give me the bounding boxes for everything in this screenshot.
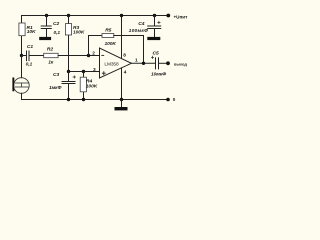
node R3 on rail [67, 14, 70, 17]
wire R2 to op-amp pin2 [58, 55, 99, 57]
svg-text:100мкФ: 100мкФ [129, 28, 149, 34]
svg-text:+Uпит: +Uпит [174, 15, 189, 20]
resistor R3 [65, 24, 71, 35]
op-amp plus input mark [102, 72, 105, 75]
wire node A row to op-amp pin3 [69, 71, 100, 73]
svg-text:C3: C3 [53, 72, 59, 78]
plus mark C3 [73, 76, 75, 78]
svg-text:10мкФ: 10мкФ [151, 71, 166, 77]
svg-text:C4: C4 [138, 21, 144, 27]
op-amp minus input mark [102, 54, 104, 56]
op-amp U1 triangle [100, 48, 132, 78]
svg-text:1к: 1к [48, 59, 54, 65]
ground under op-amp [115, 107, 128, 110]
svg-text:100K: 100K [73, 29, 85, 35]
svg-text:1мкФ: 1мкФ [49, 85, 62, 91]
wire bottom rail [22, 99, 169, 101]
wire C3 top [68, 72, 70, 82]
svg-text:0: 0 [173, 97, 176, 102]
node output junction [142, 62, 145, 65]
wire top rail [22, 15, 169, 17]
svg-text:LM358: LM358 [104, 62, 119, 68]
node C4 on rail [153, 14, 156, 17]
node J1 [20, 54, 23, 57]
svg-text:1: 1 [135, 58, 138, 64]
wire C5 to output terminal [159, 62, 168, 64]
svg-text:3: 3 [93, 67, 96, 73]
wire mic bottom [21, 93, 23, 99]
svg-text:4: 4 [124, 69, 127, 75]
svg-text:R4: R4 [86, 78, 92, 84]
capacitor C1 [27, 51, 30, 61]
resistor R2 [44, 53, 58, 57]
wire feedback right [114, 36, 144, 64]
svg-text:100K: 100K [86, 84, 98, 90]
svg-text:2: 2 [92, 51, 95, 57]
node A dot [67, 70, 70, 73]
svg-text:10K: 10K [27, 29, 36, 35]
capacitor C2 [41, 26, 51, 29]
wire R3 column to node A [68, 16, 70, 72]
resistor R5 [102, 34, 114, 38]
svg-text:0,1: 0,1 [54, 30, 61, 36]
resistor R1 [19, 23, 25, 36]
wire ground stub [121, 100, 123, 108]
wire R4 column [83, 72, 85, 100]
svg-text:выход: выход [174, 61, 187, 66]
node R4 on bottom rail [82, 98, 85, 101]
ground under C4 [147, 37, 160, 40]
svg-text:C5: C5 [153, 51, 159, 57]
svg-text:C1: C1 [27, 44, 33, 50]
wire feedback left [89, 36, 103, 56]
svg-text:100K: 100K [105, 41, 117, 47]
plus mark C5 [151, 56, 153, 58]
node C2 on rail [45, 14, 48, 17]
svg-text:R2: R2 [47, 47, 53, 53]
svg-text:8: 8 [123, 53, 126, 59]
terminal +U [166, 14, 170, 18]
terminal 0 [166, 98, 170, 102]
wire R1 column [21, 16, 23, 56]
wire mic top [21, 56, 23, 78]
microphone BM1 [12, 78, 29, 94]
wire pin8 to rail [121, 16, 123, 58]
svg-text:C2: C2 [53, 21, 59, 27]
node pin2 junction [87, 54, 90, 57]
ground under C2 [39, 37, 51, 40]
terminal output [166, 61, 170, 65]
wire C4 bottom [154, 29, 156, 37]
svg-text:R5: R5 [105, 27, 111, 33]
node C3 on bottom rail [67, 98, 70, 101]
node R4 top dot [82, 70, 85, 73]
plus mark C4 [158, 21, 160, 23]
wire C1 to R2 [30, 55, 44, 57]
node pin8 on rail [120, 14, 123, 17]
wire C2 top [46, 16, 48, 27]
wire C3 bottom [68, 84, 70, 100]
capacitor C4 [148, 26, 161, 29]
wire output [131, 62, 155, 64]
wire C4 top [154, 16, 156, 27]
wire pin4 down [121, 68, 123, 100]
capacitor C5 [156, 58, 159, 69]
wire J1 to C1 [22, 55, 27, 57]
node pin4 on bottom rail [120, 98, 123, 101]
resistor R4 [80, 77, 86, 92]
wire C2 bottom [46, 29, 48, 37]
svg-text:0,1: 0,1 [26, 61, 33, 67]
capacitor C3 [62, 82, 75, 84]
